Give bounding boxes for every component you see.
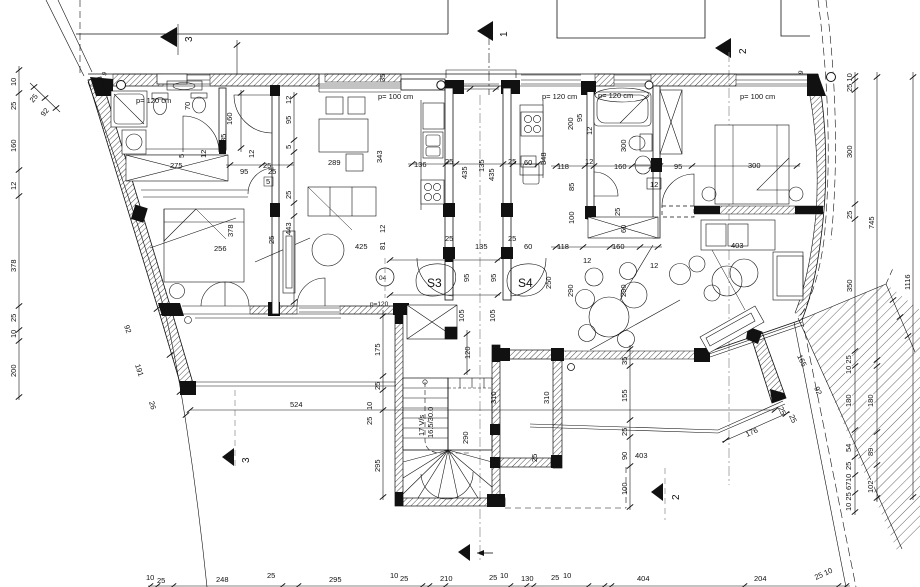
bedroom S3 north wall [141, 168, 274, 197]
svg-text:25: 25 [613, 208, 622, 216]
door S3 living arc [234, 95, 272, 133]
svg-text:16.5/30.0: 16.5/30.0 [426, 407, 435, 438]
bathroom S3 south wall [146, 149, 219, 155]
svg-text:25: 25 [9, 314, 18, 322]
tv cabinet S3 [283, 231, 295, 293]
svg-text:160: 160 [614, 162, 627, 171]
svg-text:54: 54 [844, 444, 853, 452]
bathroom S4 east wall [651, 86, 662, 238]
stair flight treads [403, 378, 448, 450]
svg-text:12: 12 [199, 150, 208, 158]
recessed window band left apt [319, 74, 401, 92]
site boundary left lower curve [88, 82, 207, 587]
svg-text:67: 67 [844, 482, 853, 490]
svg-text:343: 343 [375, 150, 384, 163]
svg-text:25: 25 [284, 191, 293, 199]
svg-text:200: 200 [9, 364, 18, 377]
window bedroom S4 (p=100) [736, 75, 807, 84]
svg-text:10 25: 10 25 [844, 492, 853, 511]
section marker 3 bottom [222, 390, 252, 470]
svg-text:p= 100 cm: p= 100 cm [378, 92, 413, 101]
svg-text:12: 12 [585, 157, 593, 166]
svg-text:25: 25 [489, 573, 497, 582]
svg-text:12: 12 [284, 96, 293, 104]
bottom wall left apartment [182, 302, 456, 316]
stairblock NW pier [393, 303, 409, 315]
slope hatch area bottom right [800, 284, 920, 553]
svg-text:25: 25 [267, 236, 276, 244]
left small slanted chain [28, 83, 60, 118]
svg-text:25: 25 [620, 428, 629, 436]
svg-text:435: 435 [460, 166, 469, 179]
svg-text:100: 100 [567, 211, 576, 224]
pier corridor right [501, 80, 520, 94]
svg-text:95: 95 [674, 162, 682, 171]
svg-text:25: 25 [263, 161, 271, 170]
svg-text:95: 95 [575, 114, 584, 122]
svg-text:3: 3 [184, 36, 195, 42]
pier corridor left [445, 80, 464, 94]
dim labels S3 living [328, 74, 427, 251]
svg-text:1: 1 [499, 31, 510, 37]
svg-text:425: 425 [355, 242, 368, 251]
svg-text:95: 95 [284, 116, 293, 124]
wall W1 bathroom S3 east [219, 88, 226, 154]
bed S4 [715, 125, 789, 204]
closet S4 hall crossed [588, 217, 658, 238]
svg-text:350: 350 [845, 279, 854, 292]
svg-text:17 V/s: 17 V/s [417, 414, 426, 436]
dim 524 bottom left [187, 400, 778, 425]
night table S3 [170, 284, 185, 299]
dim line 160 bathroom S3 [238, 90, 244, 152]
svg-text:310: 310 [489, 391, 498, 404]
svg-text:435: 435 [487, 168, 496, 181]
wall W2 hall/living S3 [270, 85, 280, 314]
section marker 2 bottom [651, 468, 682, 520]
neighbour building block B outline [557, 0, 705, 38]
svg-text:8: 8 [655, 159, 659, 168]
svg-text:378: 378 [226, 224, 235, 237]
svg-text:60: 60 [524, 158, 532, 167]
svg-text:25: 25 [373, 382, 382, 390]
svg-text:25: 25 [9, 102, 18, 110]
svg-text:5: 5 [284, 145, 293, 149]
svg-text:12: 12 [378, 225, 387, 233]
sofa S4 east [773, 252, 803, 300]
site boundary right dashed curve [798, 0, 828, 318]
sofa S3 [308, 187, 376, 230]
entrance door lines [464, 85, 501, 87]
svg-text:60: 60 [619, 225, 628, 233]
svg-text:118: 118 [557, 162, 569, 171]
neighbour building block C outline [781, 0, 810, 36]
armchair S4 [670, 264, 691, 285]
dashed lower outline [505, 467, 626, 508]
svg-text:248: 248 [216, 575, 229, 584]
svg-text:310: 310 [542, 391, 551, 404]
grid bubble 04 [376, 258, 394, 298]
svg-text:3: 3 [241, 457, 252, 463]
svg-text:210: 210 [440, 574, 453, 583]
svg-text:2: 2 [671, 494, 682, 500]
dashed balcony door S4 [662, 206, 694, 217]
dim chain terrace S4 vertical [620, 345, 648, 510]
angled SE wall upper [708, 320, 803, 357]
svg-text:300: 300 [845, 145, 854, 158]
balcony slanted wall lower left [158, 303, 196, 395]
svg-text:70: 70 [183, 102, 192, 110]
svg-text:155: 155 [620, 389, 629, 402]
svg-text:90: 90 [620, 452, 629, 460]
svg-text:12: 12 [9, 182, 18, 190]
svg-text:250: 250 [544, 276, 553, 289]
coffee table S3 [312, 234, 344, 266]
bathroom S3 door arc [183, 116, 219, 152]
svg-text:25: 25 [845, 211, 854, 219]
svg-text:12: 12 [650, 180, 658, 189]
svg-text:10: 10 [146, 573, 154, 582]
svg-text:81: 81 [378, 242, 387, 250]
pointer line S4 living [590, 300, 680, 350]
boundary segment labels left [122, 218, 236, 418]
svg-text:95: 95 [462, 274, 471, 282]
dim chain hall 95 horizontal [387, 257, 501, 297]
svg-text:85: 85 [567, 183, 576, 191]
svg-text:443: 443 [284, 222, 293, 235]
svg-text:130: 130 [521, 574, 534, 583]
svg-text:1116: 1116 [903, 274, 912, 290]
svg-text:p=120: p=120 [370, 301, 389, 308]
slope dimension chains [787, 315, 880, 582]
right dimension chain 3 [903, 72, 916, 500]
lounge circles S4 [704, 259, 758, 301]
balcony door living S3 [297, 278, 325, 306]
bedroom S4 door arc [662, 174, 694, 206]
svg-text:275: 275 [170, 161, 183, 170]
svg-text:p= 120 cm: p= 120 cm [598, 91, 633, 100]
corridor west wall W3L [443, 88, 455, 300]
bathroom S4 west wall [585, 81, 596, 219]
svg-text:100: 100 [620, 482, 629, 495]
right dimension chain 2 [867, 72, 880, 368]
svg-text:85: 85 [219, 134, 228, 142]
dim labels bathroom S3 [136, 96, 294, 253]
site boundary left double line [46, 0, 92, 76]
svg-text:p= 120 cm: p= 120 cm [542, 92, 577, 101]
svg-text:25: 25 [508, 234, 516, 243]
stair walk line [423, 380, 470, 453]
kitchen S3 counter [421, 100, 444, 210]
svg-text:290: 290 [619, 284, 628, 297]
svg-text:200: 200 [566, 117, 575, 130]
svg-text:378: 378 [9, 259, 18, 272]
svg-text:745: 745 [867, 216, 876, 229]
svg-text:160: 160 [612, 242, 625, 251]
corridor east wall W3R [501, 88, 513, 300]
svg-text:180: 180 [844, 394, 853, 407]
top-right corner pier [807, 74, 826, 96]
section marker 1 bottom [458, 544, 493, 561]
closet S4 bedroom crossed tall [660, 90, 682, 154]
wall W5 bedroom/living S4 [694, 206, 823, 214]
site boundary line lower right [794, 322, 846, 587]
svg-text:60: 60 [524, 242, 532, 251]
svg-text:p= 100 cm: p= 100 cm [740, 92, 775, 101]
left dimension chain [9, 66, 22, 400]
window S4 kitchen [521, 75, 581, 84]
bathroom S4 door arc [594, 172, 618, 196]
svg-text:102: 102 [866, 480, 875, 493]
svg-text:25 10: 25 10 [845, 73, 854, 92]
door S3 from corridor [417, 258, 453, 296]
grid circle right [827, 73, 836, 82]
svg-text:175: 175 [373, 343, 382, 356]
pier W2 bottom [268, 302, 280, 316]
closet above stair crossed [407, 305, 457, 339]
svg-text:10: 10 [563, 571, 571, 580]
interior dim line S4 row [408, 161, 800, 249]
dim chain stair west [373, 310, 386, 500]
sink S3 [167, 81, 202, 90]
dining table S4 [576, 263, 648, 348]
right exterior curved wall [795, 74, 826, 320]
living S4 south wall [562, 348, 710, 371]
dim ticks top band [234, 40, 240, 74]
svg-text:160: 160 [225, 112, 234, 125]
stair winder steps [403, 378, 492, 499]
pointer line S3 living [255, 238, 310, 262]
stair south wall [403, 494, 505, 507]
svg-text:404: 404 [637, 574, 650, 583]
entrance canopy [446, 70, 516, 78]
svg-text:136: 136 [414, 160, 427, 169]
svg-text:25: 25 [400, 574, 408, 583]
kitchen S4 counter [520, 100, 543, 184]
svg-text:295: 295 [329, 575, 342, 584]
svg-text:348: 348 [539, 152, 548, 165]
svg-text:160: 160 [9, 139, 18, 152]
svg-text:p= 120 cm: p= 120 cm [136, 96, 171, 105]
grid circle left [117, 81, 126, 90]
wardrobe 275 crossed [126, 155, 228, 181]
stair upper treads right [448, 378, 492, 450]
hall south parapet wall [500, 348, 564, 361]
svg-text:12: 12 [247, 150, 256, 158]
entry door S4 with handle circle [614, 75, 653, 89]
washing machine S3 [122, 130, 146, 154]
stair east wall [490, 345, 500, 498]
svg-text:403: 403 [731, 241, 744, 250]
terrace SE angled wall [746, 327, 786, 403]
svg-text:10: 10 [844, 474, 853, 482]
svg-text:10: 10 [9, 330, 18, 338]
closet 403 S4 living [701, 220, 775, 310]
bottom dimension labels [146, 571, 850, 587]
svg-text:25: 25 [445, 234, 453, 243]
dim labels bathroom S4 [542, 88, 775, 270]
svg-text:5: 5 [177, 154, 186, 158]
svg-text:300: 300 [748, 161, 761, 170]
dim labels bedroom S4 [566, 114, 761, 297]
stair text [417, 391, 551, 462]
svg-text:95: 95 [240, 167, 248, 176]
label oval S3 [416, 264, 456, 296]
bathtub S4 [594, 92, 651, 126]
left balcony edge lines [183, 317, 396, 387]
pier bathroom S4 [581, 81, 595, 95]
section marker 1 top [477, 21, 510, 560]
svg-text:10 25: 10 25 [844, 355, 853, 374]
svg-text:256: 256 [214, 244, 227, 253]
dim 176 terrace [722, 405, 790, 443]
svg-text:289: 289 [328, 158, 341, 167]
svg-text:300: 300 [619, 139, 628, 152]
door S4 from corridor [511, 258, 546, 296]
hall south wall lower [500, 458, 551, 467]
bidet S4 [635, 156, 651, 174]
section marker 2 top [715, 38, 749, 485]
night tables S4 [702, 187, 716, 201]
svg-text:524: 524 [290, 400, 303, 409]
svg-text:105: 105 [488, 309, 497, 322]
svg-text:12: 12 [583, 256, 591, 265]
svg-text:35: 35 [620, 357, 629, 365]
toilet S3 [152, 93, 168, 115]
window W1 top (bathroom S3) [157, 74, 210, 84]
svg-text:25: 25 [551, 573, 559, 582]
entrance door sill [464, 84, 499, 89]
label oval S4 [507, 264, 547, 296]
shower S3 [111, 91, 147, 127]
svg-text:25: 25 [267, 571, 275, 580]
svg-text:120: 120 [463, 346, 472, 359]
dim chain S3 interior vertical [267, 92, 297, 306]
svg-text:204: 204 [754, 574, 767, 583]
svg-text:135: 135 [475, 242, 488, 251]
dining table S3 [319, 97, 368, 171]
svg-text:12: 12 [650, 261, 658, 270]
bidet S3 [191, 93, 207, 113]
svg-text:290: 290 [566, 284, 575, 297]
svg-text:10: 10 [9, 78, 18, 86]
toilet S4 [629, 134, 652, 151]
left exterior slanted wall [88, 77, 172, 315]
svg-text:25: 25 [157, 576, 165, 585]
stair west wall hatched [395, 312, 403, 506]
svg-text:5: 5 [266, 177, 270, 186]
svg-text:105: 105 [457, 309, 466, 322]
right terrace edge lines [530, 401, 785, 433]
svg-text:10: 10 [365, 402, 374, 410]
balcony end pier [180, 381, 196, 395]
svg-text:35: 35 [378, 74, 387, 82]
svg-text:12: 12 [585, 127, 594, 135]
svg-text:403: 403 [635, 451, 648, 460]
svg-text:04: 04 [379, 275, 387, 282]
corner pier left bottom [158, 303, 184, 316]
neighbour building block A outline [76, 0, 448, 34]
svg-text:2: 2 [738, 48, 749, 54]
svg-text:290: 290 [461, 431, 470, 444]
svg-text:135: 135 [477, 159, 486, 172]
angled bench terrace [700, 306, 764, 353]
right dimension chain 1 [845, 72, 858, 315]
hall east wall [551, 359, 562, 468]
bed S3 [164, 209, 244, 282]
dim labels corridor [370, 152, 553, 375]
balcony double door S3 [201, 282, 249, 306]
svg-text:295: 295 [373, 459, 382, 472]
svg-text:95: 95 [489, 274, 498, 282]
svg-text:S4: S4 [518, 276, 533, 290]
svg-text:S3: S3 [427, 276, 442, 290]
svg-text:10: 10 [500, 571, 508, 580]
svg-text:10: 10 [390, 571, 398, 580]
section marker 3 top [160, 24, 195, 55]
svg-text:118: 118 [557, 242, 569, 251]
svg-text:25: 25 [844, 462, 853, 470]
svg-text:180: 180 [866, 394, 875, 407]
top-left corner pier [90, 77, 113, 96]
svg-text:25: 25 [365, 417, 374, 425]
top exterior wall hatched band [88, 74, 818, 86]
svg-text:89: 89 [866, 448, 875, 456]
svg-text:25: 25 [530, 454, 539, 462]
